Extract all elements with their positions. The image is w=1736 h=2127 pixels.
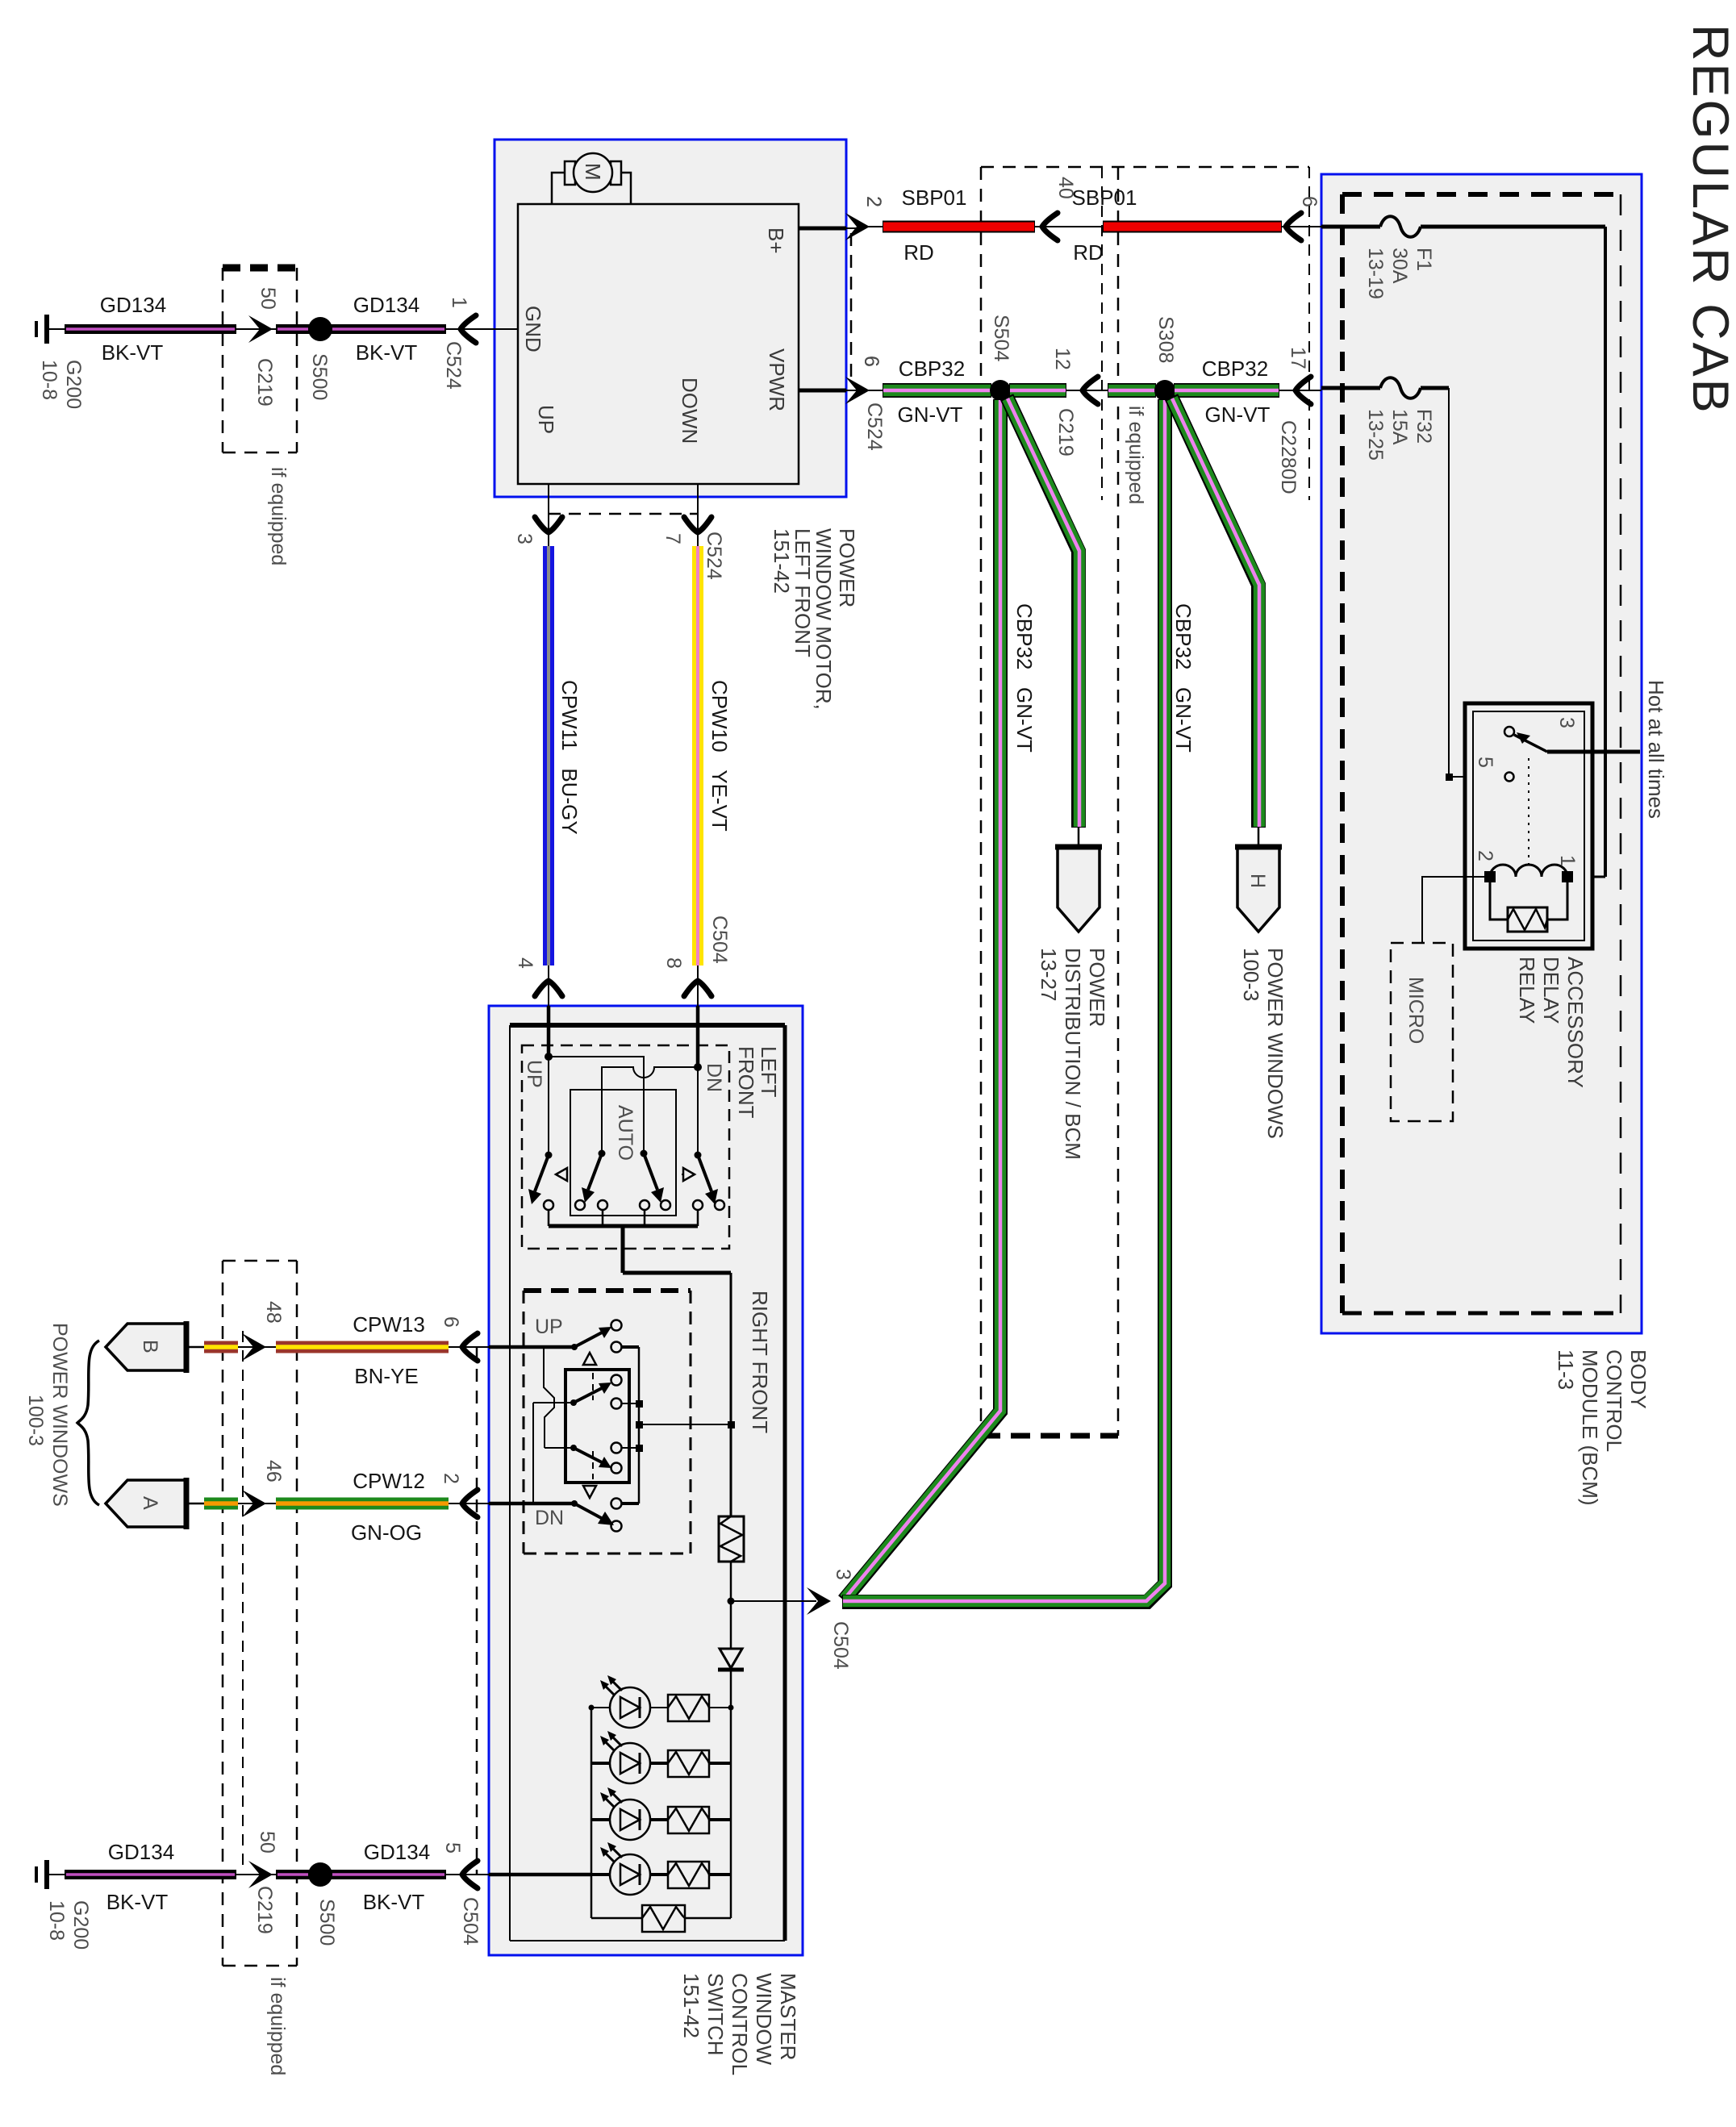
- wire GD134 BK-VT segment 1: [65, 1870, 236, 1879]
- brace POWER WINDOWS: [77, 1341, 99, 1505]
- svg-text:30A: 30A: [1388, 248, 1411, 284]
- svg-text:GD134: GD134: [364, 1840, 430, 1864]
- svg-text:GND: GND: [521, 306, 545, 352]
- svg-text:S500: S500: [315, 1899, 338, 1946]
- svg-text:GD134: GD134: [108, 1840, 174, 1864]
- feed line upper arm to DN wire: [532, 1403, 534, 1503]
- link bracket to pin3 net: [639, 1424, 731, 1425]
- svg-text:C219: C219: [253, 1886, 276, 1934]
- female arrow pin 2: [449, 1503, 489, 1504]
- svg-text:DELAY: DELAY: [1539, 957, 1563, 1024]
- connector C219 upper dashed box: [223, 265, 297, 272]
- svg-text:C219: C219: [253, 358, 276, 407]
- svg-text:151-42: 151-42: [770, 528, 794, 594]
- relay coil terminal pin 1: [1562, 871, 1573, 882]
- thin wire through C219: [236, 328, 276, 330]
- svg-text:CPW13: CPW13: [353, 1312, 425, 1337]
- male arrow pin 48: [238, 1346, 276, 1348]
- ground G200 symbol (top): [44, 315, 49, 344]
- svg-text:if equipped: if equipped: [1125, 406, 1147, 504]
- female arrow down pin 7: [684, 517, 712, 532]
- wire CPW13 BN-YE segment 2: [276, 1341, 449, 1353]
- dashed actuation line: [558, 1174, 692, 1175]
- svg-text:DN: DN: [703, 1063, 725, 1092]
- link A to wire: [186, 1503, 204, 1505]
- connector dashed bracket pins 3/7: [549, 513, 698, 515]
- wire CPW13 BN-YE segment 1: [204, 1341, 238, 1353]
- svg-text:REGULAR CAB: REGULAR CAB: [1682, 24, 1736, 415]
- LED row 3: [591, 1787, 731, 1840]
- dn direction triangle: [583, 1486, 596, 1498]
- svg-text:CONTROL: CONTROL: [728, 1973, 752, 2075]
- svg-text:3: 3: [832, 1569, 854, 1580]
- motor lead left: [552, 173, 566, 204]
- svg-text:VPWR: VPWR: [765, 348, 789, 411]
- dn switch arm: [571, 1500, 578, 1507]
- contact circles right column: [611, 1320, 622, 1331]
- left front switch arm UP: [548, 1057, 549, 1155]
- power window motor blue box: [495, 140, 846, 497]
- pin DOWN stub: [697, 484, 699, 546]
- thin wire ends into switch: [549, 965, 698, 1006]
- svg-text:6: 6: [1298, 196, 1321, 207]
- svg-text:F32: F32: [1413, 409, 1435, 444]
- svg-text:CBP32 GN-VT: CBP32 GN-VT: [1012, 603, 1037, 753]
- svg-text:GN-OG: GN-OG: [351, 1520, 422, 1545]
- wire CBP32 long run from S308 to master switch: [842, 399, 1165, 1602]
- relay actuation dotted link: [1528, 758, 1529, 870]
- svg-text:CPW10 YE-VT: CPW10 YE-VT: [707, 680, 732, 832]
- off-page connector B: [106, 1324, 186, 1370]
- wire GD134 segment 3: [331, 1870, 446, 1879]
- svg-text:Hot at all times: Hot at all times: [1644, 680, 1668, 819]
- fuse F1 symbol: [1380, 216, 1421, 237]
- contact stubs to bus: [549, 1210, 698, 1226]
- wire into relay coil pin 1: [1571, 876, 1605, 878]
- svg-text:50: 50: [256, 1831, 278, 1854]
- switch inner box top edge (bold): [510, 1023, 785, 1028]
- BCM inner dashed border left: [1340, 194, 1345, 1313]
- RIGHT FRONT dashed box: [524, 1288, 691, 1293]
- svg-text:LEFT: LEFT: [757, 1046, 781, 1098]
- svg-text:GD134: GD134: [100, 293, 166, 317]
- male arrow pin 50: [248, 1861, 273, 1888]
- diode: [720, 1649, 742, 1668]
- connector C504 dashed bracket: [476, 1347, 478, 1875]
- svg-text:C524: C524: [703, 532, 725, 580]
- link to auto right pivot: [549, 1057, 644, 1153]
- svg-text:AUTO: AUTO: [614, 1105, 636, 1161]
- svg-text:48: 48: [262, 1301, 285, 1324]
- relay resistor box: [1508, 907, 1547, 932]
- wire CBP32 GN-VT segment 1: [883, 383, 991, 398]
- SECTION-SWITCH: [489, 1006, 816, 2075]
- wire GD134 segment 2: [276, 1870, 310, 1879]
- wire F1 to relay pin 1: [1421, 225, 1605, 229]
- svg-text:11-3: 11-3: [1554, 1349, 1578, 1390]
- svg-text:S308: S308: [1154, 316, 1177, 363]
- svg-text:13-27: 13-27: [1037, 948, 1061, 1002]
- link to pentagon H: [1258, 827, 1260, 846]
- ground G200 symbol (bottom): [44, 1860, 49, 1889]
- svg-text:17: 17: [1287, 347, 1309, 369]
- svg-text:3: 3: [1555, 717, 1578, 728]
- svg-text:SWITCH: SWITCH: [703, 1973, 728, 2056]
- svg-text:8: 8: [662, 957, 685, 969]
- svg-text:RD: RD: [1073, 240, 1104, 265]
- motor terminal tab right: [611, 161, 621, 185]
- svg-text:UP: UP: [535, 1316, 563, 1338]
- switch inner box bottom edge: [510, 1940, 785, 1941]
- link B to wire: [186, 1346, 204, 1349]
- BCM inner dashed border bottom: [1342, 1312, 1621, 1316]
- common bus: [549, 1224, 698, 1228]
- svg-text:B: B: [139, 1340, 161, 1353]
- junction square at relay pin5 wire corner: [1446, 774, 1453, 781]
- dashed actuation inside lockout box: [592, 1373, 594, 1479]
- svg-text:2: 2: [1474, 850, 1496, 861]
- svg-text:POWER WINDOWS: POWER WINDOWS: [1263, 948, 1287, 1139]
- svg-text:6: 6: [860, 356, 883, 367]
- svg-text:2: 2: [440, 1473, 462, 1484]
- svg-text:G200: G200: [69, 1900, 92, 1950]
- motor terminal tab left: [565, 161, 575, 185]
- connector C524 dashed bracket pins 2/6: [850, 233, 853, 385]
- svg-text:4: 4: [514, 957, 536, 969]
- link to pentagon: [1078, 827, 1080, 846]
- relay switch arm: [1514, 735, 1547, 752]
- svg-text:B+: B+: [764, 227, 788, 254]
- relay coil terminal pin 2: [1484, 871, 1496, 882]
- feed line from up wire (jog): [544, 1347, 554, 1448]
- lockout upper arm: [533, 1402, 574, 1403]
- auto right arm: [641, 1150, 648, 1157]
- svg-text:H: H: [1246, 874, 1269, 888]
- wire SBP01 RD segment 2: [1103, 221, 1282, 233]
- pin UP stub: [548, 484, 549, 546]
- svg-text:UP: UP: [523, 1060, 545, 1088]
- wire CBP32 branch from S308 to power windows: [1171, 397, 1258, 828]
- svg-text:S504: S504: [990, 315, 1012, 361]
- wire CBP32 segment 3: [1108, 383, 1156, 398]
- svg-text:BODY: BODY: [1626, 1349, 1650, 1409]
- wire CPW10 YE-VT: [692, 546, 703, 965]
- BCM box (BODY CONTROL MODULE): [1321, 174, 1668, 1506]
- male arrow pin 50: [248, 315, 273, 343]
- wire GD134 segment 3: [331, 324, 446, 334]
- svg-text:SBP01: SBP01: [1072, 186, 1137, 210]
- svg-text:CBP32: CBP32: [1202, 357, 1268, 381]
- fuse F1 feed wire: [1321, 225, 1380, 229]
- relay inner box: [1473, 711, 1584, 940]
- wire CBP32 segment 4: [1174, 383, 1279, 398]
- svg-text:C219: C219: [1054, 408, 1077, 457]
- svg-text:BK-VT: BK-VT: [356, 340, 418, 365]
- female arrow pin 40: [1035, 226, 1103, 227]
- svg-text:POWER: POWER: [1085, 948, 1109, 1027]
- svg-text:GN-VT: GN-VT: [1205, 402, 1271, 427]
- switch inner box right edge (bold): [783, 1025, 787, 1941]
- svg-text:SBP01: SBP01: [902, 186, 967, 210]
- svg-text:7: 7: [661, 533, 684, 544]
- svg-text:MODULE (BCM): MODULE (BCM): [1578, 1349, 1602, 1506]
- up direction triangle: [583, 1353, 596, 1365]
- svg-text:BK-VT: BK-VT: [363, 1890, 425, 1914]
- fuse F32 symbol: [1380, 377, 1421, 398]
- svg-text:46: 46: [262, 1460, 285, 1483]
- svg-text:DN: DN: [535, 1507, 564, 1529]
- MICRO dashed box: [1391, 943, 1453, 1121]
- auto pivot feeds inside box: [602, 1090, 644, 1153]
- female arrow pin 6: [449, 1346, 489, 1348]
- svg-text:C504: C504: [708, 915, 731, 964]
- wire resistor to diode: [730, 1562, 732, 1708]
- Hot at all times feed wire: [1547, 750, 1640, 754]
- LED array left bus: [590, 1708, 593, 1918]
- wire F32 to relay pin 5: [1421, 386, 1449, 390]
- svg-text:UP: UP: [534, 405, 558, 434]
- svg-text:10-8: 10-8: [38, 360, 61, 400]
- svg-text:10-8: 10-8: [45, 1900, 68, 1941]
- svg-text:if equipped: if equipped: [266, 1977, 289, 2075]
- direction triangle left: [556, 1168, 567, 1181]
- svg-text:F1: F1: [1413, 248, 1435, 271]
- bracket net right of contacts: [622, 1347, 639, 1503]
- svg-text:100-3: 100-3: [24, 1395, 47, 1446]
- up switch arm: [571, 1344, 578, 1350]
- svg-text:50: 50: [257, 287, 279, 310]
- svg-text:CBP32 GN-VT: CBP32 GN-VT: [1171, 603, 1196, 753]
- svg-text:DOWN: DOWN: [678, 377, 702, 444]
- motor inner box: [518, 204, 799, 484]
- relay coil: [1490, 865, 1567, 877]
- direction triangle right: [683, 1168, 695, 1181]
- thin wire to switch: [446, 1874, 489, 1875]
- auto left arm: [599, 1150, 606, 1157]
- svg-text:POWER WINDOWS: POWER WINDOWS: [48, 1323, 71, 1507]
- female arrow up pin 4: [535, 981, 562, 996]
- junction dot: [694, 1063, 702, 1071]
- relay resistor zigzag: [1508, 909, 1547, 930]
- svg-text:POWER: POWER: [835, 528, 859, 607]
- svg-text:G200: G200: [62, 360, 85, 409]
- svg-text:RIGHT FRONT: RIGHT FRONT: [748, 1291, 772, 1433]
- thin wire through C219: [236, 1874, 276, 1875]
- wire CBP32 branch from S504 to power distribution: [1007, 397, 1079, 828]
- thin wire to motor: [446, 328, 482, 330]
- svg-text:15A: 15A: [1388, 409, 1411, 445]
- svg-text:FRONT: FRONT: [734, 1046, 758, 1119]
- pin4 feed into switch: [547, 1006, 551, 1057]
- female arrow pin 6: [1282, 226, 1321, 227]
- relay outer box: [1465, 703, 1592, 949]
- svg-text:13-19: 13-19: [1364, 248, 1387, 299]
- wire CBP32 long run from S504 to master switch: [844, 399, 1000, 1600]
- pin VPWR stub: [799, 389, 846, 393]
- svg-text:S500: S500: [308, 353, 331, 400]
- CPW13 wire inside box: [489, 1345, 574, 1349]
- svg-text:C2280D: C2280D: [1277, 420, 1300, 494]
- svg-text:CONTROL: CONTROL: [1602, 1349, 1626, 1452]
- SECTION-MOTOR: [482, 140, 886, 710]
- female arrow pin 12: [1066, 390, 1108, 391]
- LEFT FRONT dashed box: [522, 1045, 729, 1249]
- motor circle M: [574, 153, 612, 192]
- resistor on pin3 net: [719, 1516, 744, 1562]
- wire CPW12 GN-OG segment 2: [276, 1498, 449, 1510]
- lockout inner box: [565, 1370, 629, 1483]
- AUTO box: [570, 1090, 676, 1216]
- svg-text:if equipped: if equipped: [267, 467, 290, 565]
- male arrow pin 46: [238, 1503, 276, 1504]
- splice S500: [308, 317, 332, 341]
- contact circles row: [544, 1200, 553, 1210]
- splice S308: [1154, 380, 1175, 401]
- connector C219 lower tall dashed box: [223, 1260, 297, 1262]
- svg-text:GN-VT: GN-VT: [898, 402, 963, 427]
- female arrow pin 17: [1279, 390, 1321, 391]
- BCM outer blue box: [1321, 174, 1642, 1333]
- master window control switch blue box: [489, 1006, 803, 1955]
- svg-text:MASTER: MASTER: [776, 1973, 800, 2060]
- LED row 1: [589, 1675, 734, 1728]
- svg-text:BK-VT: BK-VT: [102, 340, 164, 365]
- lockout lower arm: [545, 1447, 574, 1449]
- link to auto left pivot with hop arc: [602, 1067, 698, 1153]
- BCM inner dashed border top: [1342, 192, 1621, 197]
- svg-text:RD: RD: [903, 240, 934, 265]
- svg-text:6: 6: [440, 1316, 462, 1328]
- svg-text:5: 5: [1474, 757, 1496, 768]
- relay arm arrowhead: [1517, 732, 1530, 744]
- svg-text:5: 5: [441, 1842, 464, 1854]
- motor lead right: [621, 173, 631, 204]
- svg-text:3: 3: [513, 533, 536, 544]
- svg-text:CBP32: CBP32: [899, 357, 965, 381]
- GD134 wire inside box to bus: [489, 1873, 591, 1877]
- svg-text:12: 12: [1051, 348, 1074, 370]
- bracket junction squares: [636, 1400, 643, 1408]
- BCM inner dashed border right: [1620, 194, 1622, 1313]
- pin8 feed into switch: [696, 1006, 700, 1067]
- junction dot to C504 pin3: [728, 1598, 735, 1605]
- svg-text:2: 2: [862, 196, 885, 207]
- svg-text:C504: C504: [829, 1621, 852, 1670]
- wire CPW12 GN-OG segment 1: [204, 1498, 238, 1510]
- off-page connector A: [106, 1480, 186, 1527]
- CPW12 wire inside box: [489, 1502, 574, 1506]
- LED array right bus: [730, 1708, 732, 1918]
- svg-text:13-25: 13-25: [1364, 409, 1387, 461]
- switch inner box left edge: [509, 1025, 511, 1941]
- svg-text:BN-YE: BN-YE: [354, 1364, 418, 1388]
- svg-text:1: 1: [1556, 855, 1579, 866]
- relay pin 5 contact: [1505, 773, 1514, 782]
- wire relay pin2 to micro: [1422, 877, 1490, 943]
- wire to C504 pin3: [731, 1600, 816, 1602]
- svg-text:CPW12: CPW12: [353, 1469, 425, 1493]
- svg-text:DISTRIBUTION / BCM: DISTRIBUTION / BCM: [1061, 948, 1085, 1160]
- junction dot: [545, 1053, 553, 1061]
- svg-text:C524: C524: [442, 341, 465, 390]
- relay parallel resistor leads: [1490, 877, 1567, 920]
- left front switch arm DN: [697, 1067, 699, 1155]
- splice S500: [308, 1862, 332, 1887]
- off-page connector POWER DISTRIBUTION: [1058, 846, 1100, 932]
- svg-text:GD134: GD134: [353, 293, 419, 317]
- bus riser to C504 pin3 net: [621, 1226, 625, 1273]
- wire CPW11 BU-GY: [543, 546, 554, 965]
- off-page connector H POWER WINDOWS: [1237, 846, 1279, 932]
- female arrow down pin 3: [535, 517, 562, 532]
- splice S504: [990, 380, 1011, 401]
- wire CBP32 segment 2: [1009, 383, 1066, 398]
- relay pin 3 contact: [1504, 727, 1514, 736]
- bottom resistor line: [591, 1917, 731, 1920]
- fuse F32 feed wire: [1321, 386, 1380, 390]
- svg-text:M: M: [581, 163, 605, 181]
- svg-text:C524: C524: [863, 402, 886, 451]
- pin B+ stub: [799, 227, 846, 231]
- svg-text:C504: C504: [459, 1897, 482, 1946]
- wire GD134 BK-VT segment 1: [65, 324, 236, 334]
- svg-text:MICRO: MICRO: [1404, 977, 1427, 1044]
- svg-text:1: 1: [448, 297, 470, 308]
- svg-text:100-3: 100-3: [1239, 948, 1263, 1002]
- svg-text:ACCESSORY: ACCESSORY: [1563, 957, 1588, 1088]
- male arrow pin 2: [845, 213, 870, 240]
- male arrow C504 pin 3: [807, 1587, 831, 1615]
- female arrow pin 1: [461, 315, 476, 343]
- svg-text:RELAY: RELAY: [1515, 957, 1539, 1024]
- pin GND stub: [482, 328, 518, 330]
- female arrow up pin 8: [684, 981, 712, 996]
- LED row 4: [591, 1842, 731, 1895]
- wire SBP01 RD segment 1: [883, 221, 1035, 233]
- wire GD134 segment 2: [276, 324, 310, 334]
- female arrow pin 5: [462, 1861, 478, 1888]
- svg-text:A: A: [139, 1496, 161, 1510]
- male arrow pin 6: [845, 377, 870, 404]
- svg-text:WINDOW: WINDOW: [752, 1973, 776, 2066]
- connector C219 tall mid dashed box: [981, 166, 1309, 169]
- svg-text:CPW11 BU-GY: CPW11 BU-GY: [557, 680, 582, 835]
- svg-text:151-42: 151-42: [679, 1973, 703, 2038]
- LED row 2: [591, 1731, 731, 1783]
- svg-text:BK-VT: BK-VT: [106, 1890, 169, 1914]
